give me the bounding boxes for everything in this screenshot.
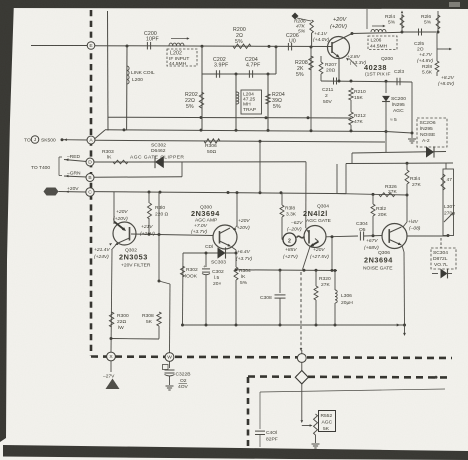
wire y=163 to right — [346, 162, 453, 165]
link coil L200 — [127, 66, 129, 84]
dashed module boundary: bottom row 2 — [248, 377, 452, 378]
vertical x=438 down with R 5.6K — [436, 49, 438, 61]
dashed module boundary: vertical at x=248 — [247, 377, 250, 447]
transistor Q306 2N3694 noise gate — [382, 224, 407, 249]
wire: riser x=276 — [275, 47, 277, 74]
transistor Q302 2N3053 — [113, 222, 136, 245]
L206 label box — [368, 36, 397, 50]
wire: vertical x=268 (R204) — [267, 74, 269, 130]
capacitor C206 — [287, 43, 289, 51]
resistor R207 — [320, 56, 322, 62]
node B — [86, 174, 94, 182]
riser x=332 to mid rail — [331, 237, 333, 271]
riser x=346 to y=163 — [345, 164, 347, 194]
resistor R202 — [199, 92, 203, 108]
resistor R214 top right — [401, 14, 403, 32]
wire below diamond — [301, 384, 303, 420]
arrow stub from junction — [436, 32, 438, 49]
capacitor C215 on rail — [402, 31, 436, 33]
capacitor C202 — [215, 70, 217, 78]
resistor R208 — [310, 47, 312, 131]
dashed mech link x=301 — [300, 272, 302, 350]
capacitor C322B below node M — [169, 362, 171, 369]
wire with diode SC206 y=152 — [352, 152, 446, 154]
wire: main IF rail y=46 — [95, 45, 332, 48]
corner down x=412 to rail end — [411, 82, 413, 133]
dashed box SC304 — [440, 238, 442, 248]
dot on dashed row2 — [435, 376, 438, 379]
Q304 emitter drop — [303, 247, 311, 270]
coil L206 — [371, 29, 386, 32]
Q300 collector riser x=237 — [236, 193, 238, 227]
transistor Q200 40238 1st pix IF — [328, 37, 350, 59]
clipper wire y=162.5 — [94, 161, 306, 163]
stub corner x=352 — [351, 153, 353, 163]
coil L202 with tuning arrow — [169, 43, 184, 46]
node M — [165, 353, 174, 362]
node D — [86, 158, 94, 166]
link vertical x=260 — [259, 141, 261, 192]
heavy annotation arrow +20V — [114, 222, 124, 230]
wire R300/R308 bottoms — [111, 338, 159, 341]
capacitor C401 82PF — [255, 430, 265, 432]
L307 slug-tuned coil box — [443, 169, 454, 236]
resistor R200 — [233, 44, 251, 48]
pot R552 AGC 5K — [314, 414, 318, 435]
resistor R210 — [349, 88, 353, 100]
diode SC304 — [432, 273, 438, 275]
+20V rail y=192 — [94, 192, 346, 194]
node E — [87, 42, 95, 50]
wire: vertical x=127 (L200) — [126, 46, 128, 130]
wire: long vertical supply x=108 — [107, 11, 110, 131]
thin AGC return line — [260, 389, 445, 392]
scan border: bottom bar — [3, 445, 468, 460]
wire y=195 with R326 — [336, 164, 338, 194]
stub rail to L307 box — [445, 163, 447, 169]
rail y=133 right — [386, 132, 412, 134]
resistor R216 with second vertical — [437, 11, 439, 32]
transistor Q300 2N3694 — [213, 225, 237, 249]
R318 riser — [281, 193, 283, 205]
CD1 label + diode SC303 row y=253 — [183, 252, 236, 254]
junction dots rail y130 — [200, 129, 203, 132]
Q300 emitter to x=236 — [231, 247, 236, 251]
L202 dashed label box — [167, 49, 197, 66]
transistor Q304 2N4121 — [304, 226, 326, 248]
Q200 emitter arrow + wire down — [332, 52, 338, 57]
scan border: left bar — [0, 0, 14, 442]
capacitor C204 — [248, 70, 250, 78]
R300 drop line — [111, 250, 112, 352]
resistor R306 on rail — [204, 139, 220, 143]
diamond node — [301, 362, 303, 371]
circled 2 test point — [283, 233, 296, 246]
vertical x=407 with R314 — [406, 163, 408, 170]
scan border: top bar — [2, 0, 468, 9]
diode SC200 — [385, 81, 387, 93]
wire: rail y=74 (C202/C204 row) — [202, 73, 276, 75]
supply drop from top bar — [366, 9, 368, 29]
Q200 collector slant to rail — [332, 34, 352, 44]
resistor R310 — [148, 192, 150, 203]
off-page diamond + resistor R206 — [292, 13, 299, 20]
vertical x=386 from rail131 to 152 — [385, 132, 387, 153]
L204 label box 47.25 MHz TRAP — [241, 90, 262, 114]
resistor R303 — [113, 160, 128, 164]
bottom rail y=325 — [183, 324, 407, 326]
vertical x=373 with R312 — [372, 194, 374, 204]
RED lead — [64, 160, 87, 162]
dashed module boundary: bottom row 1 — [91, 357, 452, 359]
wire: input from left to node E — [31, 45, 87, 47]
ground stub — [411, 133, 413, 138]
resistor R308 — [157, 312, 161, 326]
coil L306 — [334, 271, 336, 291]
Q306 base row with C304 — [326, 235, 358, 238]
resistor R304 — [234, 267, 238, 280]
resistor R212 — [350, 100, 352, 112]
dashed box SC206 noise diode — [417, 118, 447, 147]
resistor R320 — [315, 270, 317, 286]
junction dots top rail — [126, 45, 129, 48]
wire: left bend of rail into node A — [95, 130, 105, 139]
collector rail y=32 — [352, 32, 402, 33]
wire: vertical x=202 — [201, 46, 203, 130]
capacitor C200 — [146, 42, 148, 50]
mid rail y=270 — [236, 269, 337, 272]
diode SC206 — [426, 146, 434, 157]
node C — [86, 188, 94, 196]
resistor R204 — [266, 94, 270, 104]
resistor R300 — [109, 312, 113, 327]
node B wire and riser to clipper — [94, 176, 182, 179]
+20V hexagon — [44, 188, 59, 196]
filled triangle marker — [106, 379, 120, 390]
node X — [110, 351, 112, 354]
AGC rail y=141 — [95, 140, 385, 142]
wiper arrow to pot — [302, 425, 310, 427]
wire y=81 emitter row — [321, 81, 412, 82]
wire: vertical x=236 (L204) — [235, 74, 237, 130]
diode SC302 (left pointing) — [155, 156, 164, 168]
node circle on dashed row — [301, 350, 303, 354]
C302 electrolytic — [205, 253, 207, 267]
trap L204 coil — [236, 92, 238, 104]
Q302 emitter slant to R300 line — [117, 238, 130, 244]
junction dots rail y117 — [200, 116, 203, 119]
Q306 collector wire right y=236 — [407, 235, 448, 237]
wire: rail y=117.5 — [108, 116, 351, 119]
base wire y=234.5 shared to Q300 — [131, 234, 213, 236]
dashed module boundary: vertical — [90, 10, 93, 356]
Q306 emitter down — [402, 246, 404, 253]
left vertical x=182.5 with R302 — [182, 253, 185, 325]
paper texture overlay — [0, 0, 1, 1]
node A — [87, 136, 95, 144]
capacitor C308 — [279, 270, 281, 293]
capacitor C213 — [396, 78, 398, 86]
clipper wire corner down x=306 — [305, 162, 307, 228]
Q302 collector riser — [113, 192, 115, 224]
wire: rail y=130.5 — [105, 130, 386, 132]
jog to x=170 and down to node M — [159, 281, 170, 284]
GRN lead — [64, 176, 87, 177]
capacitor C211 — [333, 78, 335, 85]
